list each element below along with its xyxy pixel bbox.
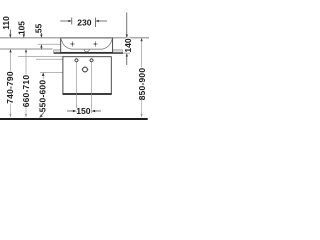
dim 740-790 bbox=[5, 49, 15, 117]
svg-text:110: 110 bbox=[1, 16, 11, 30]
tap hole cross left bbox=[70, 41, 75, 46]
svg-text:105: 105 bbox=[16, 21, 26, 35]
bowl inner curve bbox=[61, 39, 112, 49]
wire tap hole reference stub y44.2 bbox=[38, 43, 61, 45]
dim 850-900 bbox=[137, 38, 147, 117]
dim 140 basin depth bbox=[123, 13, 133, 66]
svg-text:550-600: 550-600 bbox=[38, 80, 48, 113]
basin plan outline bbox=[61, 38, 113, 53]
wire stub y72.4 to pedestal bbox=[40, 71, 63, 73]
dim 110 bbox=[1, 16, 11, 38]
svg-text:850-900: 850-900 bbox=[137, 68, 147, 101]
tap hole cross right bbox=[93, 41, 98, 46]
dim 105 bbox=[16, 21, 26, 38]
drain semicircle in plan bbox=[84, 49, 89, 52]
supply line left bbox=[76, 62, 78, 113]
wire stub y59.2 to pedestal bbox=[36, 58, 63, 60]
mounting rail bar behind basin x53.7-122.3 bbox=[54, 50, 123, 53]
drain hole with crosshair bbox=[81, 66, 89, 74]
dim 55 bbox=[34, 23, 44, 49]
dim 150 supply distance bbox=[67, 106, 101, 116]
svg-text:150: 150 bbox=[76, 106, 91, 116]
floor line bbox=[0, 118, 148, 120]
dim 550-600 bbox=[38, 72, 48, 117]
dim 660-710 bbox=[21, 49, 31, 117]
wire top reference line y37.9 full width bbox=[0, 37, 149, 39]
dim 230 tap distance bbox=[60, 18, 107, 28]
svg-text:55: 55 bbox=[34, 23, 44, 33]
wire stub y56.4 left of pedestal bbox=[18, 55, 63, 57]
svg-text:140: 140 bbox=[123, 38, 133, 53]
svg-text:660-710: 660-710 bbox=[21, 75, 31, 108]
wire thick bar bottom line y53.1 bbox=[54, 52, 123, 54]
fixing hole right bbox=[89, 58, 94, 63]
supply line right bbox=[91, 62, 93, 113]
pedestal / lower body rectangle bbox=[63, 57, 112, 94]
svg-text:230: 230 bbox=[77, 18, 92, 28]
fixing hole left bbox=[74, 58, 79, 63]
svg-text:740-790: 740-790 bbox=[5, 71, 15, 104]
pedestal thick bottom edge bbox=[63, 93, 112, 95]
wire rail reference stub line y49.0 left bbox=[0, 48, 53, 50]
